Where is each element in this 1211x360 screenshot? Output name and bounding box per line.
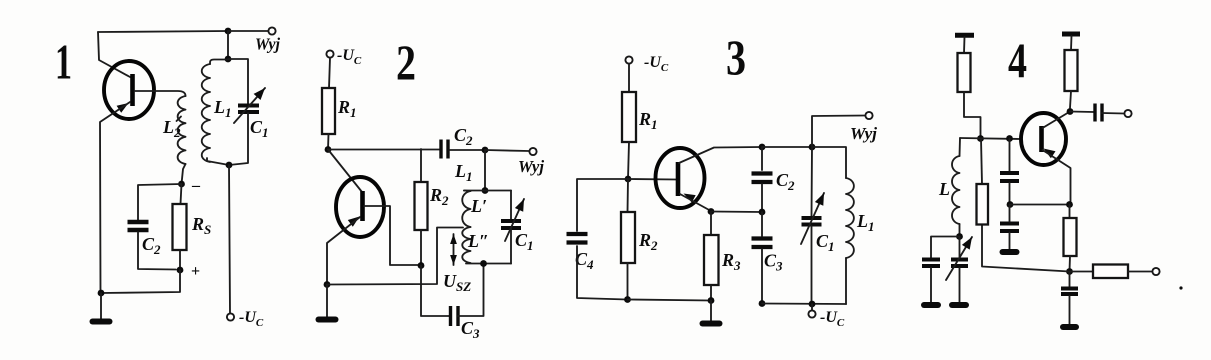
capacitor bypass c4 [1061,289,1078,295]
wire base lead c2 [364,206,421,265]
capacitor divider upper c4 [1000,173,1019,181]
capacitor divider lower c4 [1000,224,1019,232]
node divider mid junction [1007,201,1014,208]
node C2C3 junction [759,209,766,216]
wire to output resistor c4 [1070,271,1094,273]
wire C4 bottom to ground rail [577,246,627,300]
label L circuit 4 [938,179,950,199]
wire R2 bottom lead c3 [627,263,629,300]
capacitor C3 circuit 2 [451,306,459,326]
wire divider top lead [1009,139,1011,172]
wire C3 right lead [458,265,484,316]
svg-text:2: 2 [396,34,416,90]
wire divider mid lead [1009,183,1011,205]
label L-prime [470,196,487,216]
terminal Wyj circuit 3 [865,112,872,119]
node emitter junction c3 [708,208,715,215]
wire L1 top lead c3 [812,147,846,178]
svg-text:3: 3 [726,29,746,85]
node tank top junction c2 [482,187,489,194]
wire C1 bottom lead c3 [811,226,813,304]
power rail bar right c4 [1062,32,1080,37]
node tank top junction [225,56,232,63]
wire emitter resistor top lead [1069,205,1071,219]
capacitor C3 circuit 3 [752,239,773,248]
node output junction c2 [482,147,489,154]
arrow variable cap adjustment c4 [946,237,972,280]
wire C2 bottom lead c3 [761,184,763,212]
label -Uc circuit 1 [239,309,264,329]
stray mark comma [1179,286,1182,289]
wire R1 bottom to base node [628,142,629,179]
ground symbol circuit 3 [703,321,720,327]
label L1 circuit 3 [856,211,875,234]
wire junction to output terminal [228,30,268,32]
wire output node down [227,31,229,59]
capacitor C1 variable [238,106,259,113]
wire variable cap to bar [959,268,961,303]
figure number 4 [1008,32,1027,88]
wire R2 top lead [420,149,422,182]
node emitter junction c4 [1066,201,1073,208]
label L2 [162,117,181,140]
label -Uc circuit 2 [337,47,362,67]
resistor R1 circuit 2 [322,88,335,134]
wire R3 bottom lead [710,285,712,301]
wire collector to output node [98,31,228,32]
label Rs [191,214,211,237]
wire C2 bottom [138,232,176,270]
wire emitter lead c4 [1043,150,1071,205]
svg-text:L″: L″ [467,231,489,251]
wire top rail collector to C1/L1 [762,146,812,148]
wire ground to coil tap [327,228,463,285]
arrow C1 adjustment [234,88,265,123]
label R1 circuit 2 [337,97,357,120]
transistor T3 base bar [676,162,681,196]
label C4 [575,249,594,272]
transistor T1 emitter arrow (PNP) [117,103,129,113]
resistor R2 circuit 3 [621,212,635,263]
node tank bottom junction c2 [480,260,487,267]
ground bar under divider [1003,249,1017,255]
wire L2 bottom to node [182,164,186,184]
transistor T4 body [1021,113,1066,165]
terminal -Uc circuit 3 [625,56,632,63]
ground symbol circuit 1 [93,319,110,325]
node emitter-ground junction c2 [324,281,331,288]
wire Rs bottom to plus node [179,250,181,270]
wire bypass cap bottom lead [1069,296,1071,325]
wire L1 bottom lead c3 [845,258,847,304]
wire collector node to coupling cap [1070,111,1094,114]
wire tank top to C1 [228,59,248,104]
label -Uc bottom circuit 3 [820,309,845,329]
transistor T2 emitter arrow (PNP) [348,217,360,227]
wire -Uc rail c3 [762,303,846,306]
label L1 [213,97,232,120]
arrow C1 adjustment c2 [505,199,524,241]
label L1 circuit 2 [454,161,473,184]
capacitor C2 circuit 2 [441,140,448,159]
figure number 2 [396,34,416,90]
wire variable cap top lead c4 [959,237,961,258]
node collector-output junction [225,28,232,35]
svg-text:Wyj: Wyj [518,157,544,176]
resistor base-divider c4 [977,184,989,225]
capacitor fixed bottom-left c4 [922,260,940,267]
capacitor variable bottom-left c4 [951,260,968,267]
wire base rail to transistor [628,178,677,181]
wire coupling cap to terminal [1102,112,1124,115]
wire R left bottom to base rail [964,92,981,138]
label Wyj circuit 2 [518,157,544,176]
terminal Wyj circuit 2 [529,148,536,155]
figure number 1 [55,34,72,90]
wire power to R left c4 [963,37,966,53]
svg-text:–: – [191,177,201,194]
node emitter resistor bottom junction [1066,268,1073,275]
transistor T2 body [336,177,384,237]
ground bar under fixed cap [924,302,938,308]
wire -Uc to R1 c3 [628,64,630,92]
terminal output top c4 [1124,110,1131,117]
node Rs/C2 bottom junction [177,267,184,274]
inductor L2 [178,96,186,164]
wire C2 top lead c3 [761,147,763,170]
label R1 circuit 3 [638,109,658,132]
svg-text:Wyj: Wyj [255,35,280,54]
label R2 circuit 3 [638,230,658,253]
label plus [191,263,200,280]
svg-text:Wyj: Wyj [850,124,877,143]
node R3 ground junction [708,297,715,304]
node Wyj/C1 junction c3 [809,144,816,151]
wire to fixed cap c4 [931,237,960,258]
wire tank top rail c2 [464,190,511,192]
label R2 circuit 2 [429,185,449,208]
wire L1 bottom to node [207,158,229,165]
transistor T4 base bar [1039,126,1044,152]
inductor L' upper half [462,191,470,227]
wire collector lead [98,32,130,77]
wire divider mid to emitter node [1010,204,1070,206]
power rail bar left c4 [955,33,974,38]
node collector junction c3 [759,144,766,151]
wire emitter lead [100,102,130,293]
wire collector lead c3 [679,147,762,163]
wire tank bottom to -Uc terminal [229,165,230,313]
node L2/C2/Rs junction [178,181,185,188]
node tank bottom junction [226,162,233,169]
transistor T4 emitter arrow (PNP) [1044,149,1056,159]
resistor output horizontal c4 [1093,265,1128,279]
node base/R2/C3 junction [418,262,425,269]
resistor R3 [704,235,719,285]
resistor R left c4 [958,53,971,92]
terminal -Uc bottom circuit 3 [808,310,815,317]
capacitor C4 [567,234,588,243]
inductor L circuit 4 [952,156,960,224]
ground symbol circuit 2 [319,317,336,323]
wire ground rail c3 [628,300,712,301]
wire -Uc to R1 [329,58,330,88]
terminal Wyj output [268,27,275,34]
svg-text:+: + [191,263,200,280]
wire output node to tank top [484,150,486,190]
node base rail left junction [977,135,984,142]
wire R1 bottom to collector node [327,134,330,150]
wire ground stem [100,293,102,319]
arrow C1 adjustment c3 [801,193,824,244]
wire C1 bottom lead c2 [510,228,512,264]
label C2 [142,234,161,257]
wire bypass cap top lead c4 [1069,272,1071,287]
svg-text:1: 1 [55,34,72,90]
wire emitter to C2C3 node [711,211,762,214]
wire top rail to C2 [328,149,440,151]
wire C3 top lead c3 [761,212,763,236]
capacitor coupling output c4 [1095,104,1102,122]
resistor Rs [173,204,187,250]
wire tank top to L1 [210,60,228,65]
inductor L1 circuit 3 [846,178,854,258]
wire emitter resistor bottom lead [1069,256,1072,271]
node ground junction [98,290,105,297]
capacitor C2 circuit 3 [752,174,773,183]
capacitor C1 circuit 3 variable [802,218,822,225]
wire C1 bottom to node [229,113,248,165]
wire C3 left lead [421,266,449,317]
label -Uc circuit 3 [644,54,669,74]
stray prime mark after L2 [177,117,182,122]
ground bar under bypass cap [1063,324,1076,330]
wire to Wyj terminal c2 [485,150,529,151]
transistor T3 body [656,148,705,208]
capacitor C1 circuit 2 variable [501,221,521,228]
label C2 circuit 2 [454,125,473,148]
wire base rail corner to coil [959,138,962,156]
svg-text:4: 4 [1008,32,1027,88]
label R3 [721,250,741,273]
capacitor C2 [128,222,149,230]
wire divider cap mid2 [1009,205,1011,222]
resistor R1 circuit 3 [622,92,636,142]
transistor T1 body [104,61,154,119]
wire -Uc stem c3 [811,304,813,310]
node collector junction c2 [325,146,332,153]
wire R left resistor to rail join [981,139,982,185]
wire emitter lead c3 [680,194,711,211]
wire base lead [135,91,186,96]
arrow Usz voltage (double) [450,234,457,265]
wire power to R right c4 [1070,36,1073,50]
node base junction c3 [625,176,632,183]
terminal -Uc circuit 1 [227,313,234,320]
node collector junction c4 [1067,108,1074,115]
ground bar under variable cap [952,302,966,308]
node tank bottom junction c4 [956,233,963,240]
wire ground stem c2 [326,285,328,318]
node R2 ground junction [624,296,631,303]
label C1 [250,117,269,140]
wire R2 top lead c3 [627,179,630,212]
wire emitter lead c2 [327,217,360,284]
label minus [191,177,201,194]
wire divider lower lead [1009,233,1011,250]
label C3 circuit 2 [461,318,480,341]
transistor T2 base bar [360,191,365,221]
wire R2 bottom lead [420,230,422,265]
transistor T3 emitter arrow (PNP) [684,194,696,203]
inductor L1 [202,64,210,162]
label C1 circuit 2 [515,230,534,253]
wire C1 top lead c2 [510,191,512,220]
label C3 circuit 3 [764,251,783,274]
svg-text:L′: L′ [470,196,487,216]
wire plus node to ground rail [101,270,180,293]
transistor T1 base bar [130,74,135,106]
terminal -Uc circuit 2 [326,50,333,57]
wire tank bottom rail c2 [466,263,511,265]
wire coil top join [464,190,471,193]
wire collector lead c2 [328,150,362,193]
label Wyj [255,35,280,54]
label C1 circuit 3 [816,231,835,254]
inductor L'' lower half [462,227,470,263]
resistor R2 circuit 2 [415,182,428,230]
wire fixed cap to bar [930,268,932,303]
label L-doubleprime [467,231,489,251]
wire base node to C4 [577,179,628,231]
wire R3 top lead [710,212,712,236]
wire C3 bottom lead c3 [761,249,763,304]
wire node to Rs top [181,184,182,204]
wire coil bottom to cap node [959,224,961,236]
label Wyj circuit 3 [850,124,877,143]
wire node to C2 top [138,184,182,220]
figure number 3 [726,29,746,85]
label Usz [443,271,471,294]
wire R right bottom to collector node [1070,91,1071,108]
resistor R right c4 [1065,50,1078,91]
wire output resistor to terminal [1128,271,1152,273]
wire ground stem c3 [710,301,712,322]
wire base rail c4 [960,138,1021,139]
node C3 bottom junction [759,300,766,307]
svg-text:L: L [938,179,950,199]
wire collector lead c4 [1043,112,1071,129]
wire Wyj tap c3 [812,116,865,148]
terminal output bottom c4 [1152,268,1159,275]
node divider top junction c4 [1006,135,1013,142]
resistor emitter c4 [1064,218,1077,256]
wire C1 top lead c3 [811,147,814,216]
wire R bottom rail c4 [982,225,1070,272]
node -Uc junction c3 [809,301,816,308]
wire C2 to output node [450,149,486,151]
label C2 circuit 3 [776,170,795,193]
